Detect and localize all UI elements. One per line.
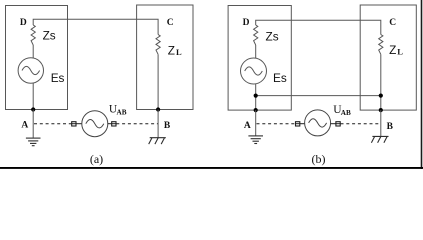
chassis ground at B (b) — [371, 136, 388, 142]
svg-text:Es: Es — [273, 71, 287, 85]
chassis ground at B (a) — [149, 138, 166, 144]
junction dot left shield bottom (b) — [254, 108, 258, 112]
resistor ZL (a) — [156, 35, 160, 55]
wire ZL to shield bottom (b) — [380, 54, 382, 110]
svg-text:B: B — [387, 122, 394, 132]
dashed wire A to terminal (b) — [257, 123, 296, 125]
junction dot bond right (b) — [379, 94, 383, 98]
wire node A to ground (a) — [32, 110, 34, 138]
shield box right (a) — [137, 5, 193, 110]
wire Zs to Es (b) — [255, 45, 257, 58]
svg-text:A: A — [21, 121, 28, 131]
terminal square left (a) — [72, 122, 76, 126]
shield box left (b) — [228, 6, 291, 111]
svg-text:AB: AB — [341, 109, 351, 117]
wire terminal to source UAB (a) — [71, 123, 81, 125]
svg-text:Z: Z — [168, 43, 175, 57]
shield box right (b) — [360, 5, 416, 110]
resistor Zs (a) — [31, 25, 35, 45]
svg-text:D: D — [243, 18, 250, 28]
svg-text:L: L — [397, 47, 403, 57]
earth ground at A (a) — [26, 138, 41, 146]
AC source UAB (b) — [305, 110, 331, 136]
wire node D to node C (b) — [256, 20, 381, 34]
earth ground at A (b) — [248, 136, 263, 144]
bonding wire Es to ZL (b) — [256, 95, 381, 97]
AC source Es (a) — [18, 58, 43, 83]
svg-text:B: B — [164, 121, 171, 131]
shield box left (a) — [6, 6, 68, 110]
junction dot bond left (b) — [254, 94, 258, 98]
wire Es to shield bottom (a) — [32, 83, 34, 110]
svg-text:Zs: Zs — [266, 29, 279, 43]
wire source UAB to terminal (b) — [331, 123, 341, 125]
resistor Zs (b) — [254, 25, 258, 45]
wire Es to shield bottom (b) — [255, 84, 257, 110]
wire node B to chassis ground (a) — [157, 110, 159, 138]
wire ZL to shield bottom (a) — [157, 54, 159, 109]
svg-text:(a): (a) — [90, 152, 103, 166]
wire node B to chassis ground (b) — [380, 110, 382, 136]
dashed wire terminal to B (a) — [116, 123, 158, 125]
AC source Es (b) — [241, 58, 267, 84]
svg-text:L: L — [176, 47, 182, 57]
junction dot right shield bottom (a) — [156, 107, 160, 111]
resistor ZL (b) — [379, 35, 383, 55]
right page border — [421, 0, 423, 169]
wire terminal to source UAB (b) — [295, 123, 304, 125]
wire node D to node C (a) — [33, 19, 158, 34]
svg-text:(b): (b) — [312, 152, 326, 166]
junction dot left shield bottom (a) — [31, 107, 35, 111]
junction dot right shield bottom (b) — [379, 108, 383, 112]
dashed wire A to terminal (a) — [34, 123, 72, 125]
dashed wire terminal to B (b) — [341, 123, 381, 125]
svg-text:C: C — [389, 18, 396, 28]
svg-text:Z: Z — [389, 43, 396, 57]
svg-text:Es: Es — [51, 71, 65, 85]
svg-text:A: A — [244, 121, 251, 131]
svg-text:AB: AB — [117, 109, 127, 117]
terminal square right (a) — [112, 122, 116, 126]
bottom page border — [0, 167, 423, 169]
svg-text:C: C — [167, 18, 174, 28]
terminal square right (b) — [336, 122, 340, 126]
wire source UAB to terminal (a) — [108, 123, 117, 125]
wire Zs to Es (a) — [32, 45, 34, 58]
AC source UAB (a) — [82, 111, 108, 137]
svg-text:Zs: Zs — [43, 29, 56, 43]
svg-text:D: D — [20, 18, 27, 28]
terminal square left (b) — [296, 122, 300, 126]
wire node A to ground (b) — [255, 110, 257, 136]
